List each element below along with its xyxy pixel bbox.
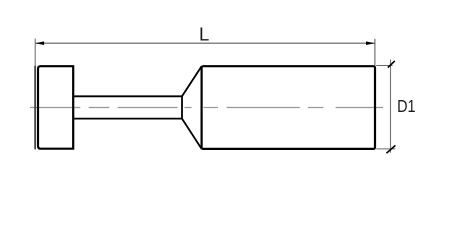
L extension line left (34, 39, 36, 67)
shank body (202, 66, 375, 149)
L dimension line (35, 42, 375, 44)
neck top line (73, 95, 182, 97)
D1 extension line top (376, 65, 392, 67)
cutter head disc (38, 66, 73, 149)
D1 bottom tick (387, 145, 396, 153)
L dimension left arrowhead (35, 41, 44, 45)
cutter head left face line (34, 66, 36, 150)
neck end vertical line (181, 95, 183, 119)
L dimension right arrowhead (366, 41, 375, 45)
centerline (30, 107, 383, 109)
svg-text:L: L (199, 24, 209, 45)
D1 extension line bottom (376, 148, 395, 150)
L dimension extension line right (374, 39, 376, 66)
D1 dimension line (390, 60, 392, 153)
svg-text:D1: D1 (397, 96, 415, 116)
taper upper line (182, 66, 202, 96)
neck bottom line (73, 118, 182, 120)
D1 top tick (388, 61, 395, 68)
taper lower line (182, 119, 202, 149)
